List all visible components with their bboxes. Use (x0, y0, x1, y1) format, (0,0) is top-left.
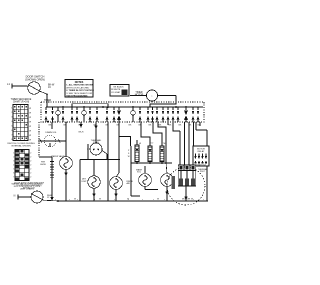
wire door switch to timer feed (41, 92, 48, 108)
cam labels (49, 124, 201, 126)
chart footnote (7, 143, 35, 147)
svg-text:4: 4 (13, 165, 14, 167)
door switch label (25, 75, 45, 82)
wire rail to heater (39, 157, 52, 161)
wire L1 lead (7, 82, 27, 89)
wire interlock to motor circuit (102, 151, 107, 160)
svg-text:W: W (29, 126, 31, 128)
svg-text:2: 2 (30, 173, 31, 175)
svg-text:CHART (X=ON): CHART (X=ON) (13, 100, 30, 103)
thermostat switch (160, 146, 164, 162)
rinse aid solenoid (110, 177, 123, 201)
drain solenoid (38, 135, 66, 147)
bus wire labels (74, 199, 193, 201)
wire to rinse solenoid (116, 159, 120, 177)
wire stub to drain (51, 122, 53, 129)
motor dashed circle (167, 167, 205, 205)
motor protector label (198, 168, 207, 173)
svg-text:2: 2 (30, 169, 31, 171)
wire heater to bus (50, 180, 54, 201)
timer cam switches (45, 107, 200, 122)
pressure switch (148, 146, 152, 162)
svg-text:W: W (29, 135, 31, 137)
wire to vent (107, 122, 109, 201)
interlock label (91, 139, 102, 144)
svg-text:2. TIMER IN OFF POSITION: 2. TIMER IN OFF POSITION (66, 90, 94, 92)
wire to interlock (94, 122, 98, 143)
svg-text:GY GRAY: GY GRAY (111, 91, 121, 94)
svg-text:TEST PROCEDURES: TEST PROCEDURES (66, 95, 88, 97)
svg-text:W: W (128, 156, 130, 158)
svg-text:W: W (29, 112, 31, 114)
cycle chart footnote (11, 183, 42, 191)
right rail corners (196, 122, 207, 130)
svg-text:7: 7 (13, 177, 14, 179)
svg-text:W: W (127, 199, 129, 201)
svg-text:600W: 600W (40, 164, 45, 166)
wash solenoid label (136, 168, 142, 173)
svg-text:1: 1 (13, 153, 14, 155)
wire timer motor to bus (150, 96, 176, 108)
svg-text:W: W (29, 117, 31, 119)
svg-text:2: 2 (30, 157, 31, 159)
wire drops below timer (79, 122, 83, 128)
detergent dispenser label (82, 179, 87, 183)
heater element (50, 161, 54, 180)
svg-text:1: 1 (11, 108, 12, 110)
svg-text:PROT: PROT (200, 171, 206, 173)
neutral lead wire (14, 194, 31, 199)
wire to timer motor (130, 95, 146, 97)
svg-text:W: W (29, 139, 31, 141)
module label (128, 150, 130, 158)
svg-text:(SHOWN OPEN): (SHOWN OPEN) (25, 77, 45, 81)
timer sequence chart grid (11, 105, 31, 142)
svg-text:2: 2 (30, 165, 31, 167)
water valve solenoid (60, 122, 73, 201)
svg-text:3. SEE TECH SHEET FOR: 3. SEE TECH SHEET FOR (66, 93, 92, 95)
motor windings (178, 171, 196, 187)
motor connector pins (178, 165, 196, 171)
door switch contact label (48, 84, 55, 90)
bus junction dots (62, 106, 187, 108)
bus jumper (71, 104, 109, 108)
motor winding label (172, 176, 175, 189)
svg-text:6: 6 (11, 130, 12, 132)
cluster tie wire (131, 162, 172, 164)
svg-text:W: W (157, 199, 159, 201)
solenoid box (131, 146, 140, 196)
svg-text:W: W (191, 199, 193, 201)
legend box wire code (110, 85, 129, 97)
svg-text:c: c (152, 96, 153, 98)
bottom switch label (47, 195, 53, 199)
svg-text:W: W (29, 121, 31, 123)
svg-text:4: 4 (11, 121, 12, 123)
wire down to dispenser (93, 160, 95, 176)
drain solenoid label (45, 131, 57, 134)
svg-text:2: 2 (30, 161, 31, 163)
svg-text:2: 2 (30, 177, 31, 179)
svg-text:INTERLOCK: INTERLOCK (23, 187, 36, 189)
svg-text:2: 2 (11, 112, 12, 114)
svg-text:RELAY: RELAY (198, 150, 205, 153)
limit switch labels (139, 143, 166, 146)
heater label (40, 162, 45, 166)
interlock switch (87, 143, 102, 155)
svg-text:WATER VALVE: WATER VALVE (51, 155, 65, 158)
cycle chart grid (13, 150, 31, 181)
neutral rail wire (39, 121, 49, 157)
svg-text:6: 6 (13, 173, 14, 175)
svg-text:7: 7 (11, 135, 12, 137)
routing wires (119, 122, 180, 173)
svg-text:NOTES: NOTES (75, 81, 84, 84)
motor feed wires (180, 122, 194, 165)
right rail (206, 130, 208, 201)
svg-text:DISP: DISP (82, 181, 87, 183)
bottom-left door switch label (14, 183, 45, 190)
svg-text:2: 2 (13, 157, 14, 159)
svg-text:5: 5 (13, 169, 14, 171)
terminal chart label (11, 99, 32, 104)
svg-text:W: W (74, 199, 76, 201)
float switch (135, 145, 139, 162)
timer motor label (135, 92, 144, 96)
wash solenoid (139, 166, 158, 190)
svg-text:W: W (29, 130, 31, 132)
legend box notes (65, 80, 94, 98)
timer assembly dashed box (41, 100, 204, 122)
svg-text:WITH DOOR LATCHED: WITH DOOR LATCHED (66, 86, 89, 89)
svg-text:W WHITE: W WHITE (111, 89, 121, 91)
svg-text:TIMER: TIMER (44, 100, 51, 102)
svg-text:1. ALL SWITCHES SHOWN: 1. ALL SWITCHES SHOWN (66, 84, 94, 87)
svg-text:2: 2 (30, 153, 31, 155)
svg-text:DRAIN SOL: DRAIN SOL (45, 131, 57, 134)
svg-text:INTERVAL SHOWN: INTERVAL SHOWN (11, 145, 31, 148)
svg-text:N: N (14, 194, 16, 197)
svg-text:BK-R: BK-R (79, 132, 84, 134)
svg-text:3: 3 (13, 161, 14, 163)
motor circuit wire (80, 144, 119, 201)
svg-text:W: W (99, 199, 101, 201)
rinse aid label (127, 181, 134, 185)
bottom door switch (31, 191, 44, 203)
svg-text:8: 8 (11, 139, 12, 141)
svg-text:AID: AID (127, 182, 131, 185)
timer L1 bus wire (46, 106, 203, 108)
water valve label (51, 155, 65, 158)
svg-text:5: 5 (11, 126, 12, 128)
svg-text:BK BLACK: BK BLACK (114, 85, 125, 88)
motor ground wire (184, 186, 188, 201)
svg-text:W: W (29, 108, 31, 110)
motor label (182, 198, 191, 200)
svg-text:MOTOR: MOTOR (197, 148, 205, 150)
wire code label (79, 132, 84, 134)
neutral bus wire (44, 200, 209, 202)
svg-text:3: 3 (11, 117, 12, 119)
motor relay (193, 146, 209, 167)
timer motor M (146, 90, 157, 101)
svg-text:START RLY: START RLY (196, 164, 207, 167)
door switch S1 (28, 82, 41, 94)
bus arrowheads (55, 198, 206, 201)
detergent dispenser solenoid (88, 176, 100, 201)
drain solenoid 2 (161, 163, 174, 201)
